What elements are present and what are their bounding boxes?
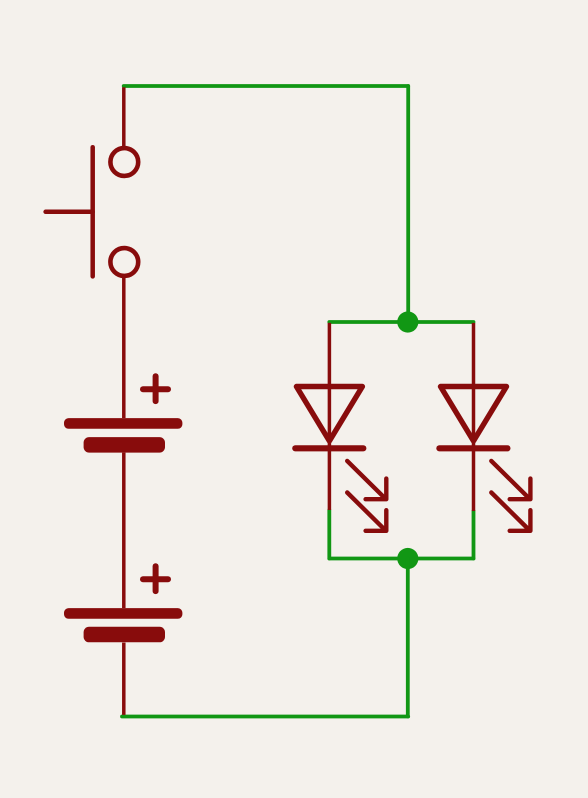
- cathode bar D2: [439, 445, 507, 451]
- junction node top: [397, 311, 418, 332]
- pin top of switch: [122, 87, 126, 148]
- triangle D1: [296, 387, 362, 442]
- switch contact circle top: [110, 148, 138, 176]
- pin bottom of switch: [122, 276, 126, 418]
- battery BT1: [64, 376, 182, 452]
- wire right vertical upper: [406, 86, 410, 322]
- wire top rail: [124, 84, 409, 88]
- pin cathode D1: [328, 439, 332, 510]
- wire right vertical lower: [406, 559, 410, 717]
- wire LED top rail: [329, 320, 473, 324]
- pin anode D1: [328, 323, 332, 439]
- plus sign BT1: [143, 376, 168, 401]
- pin cathode D2: [472, 439, 476, 511]
- battery BT2 negative plate: [84, 627, 165, 643]
- switch actuator bar: [90, 147, 95, 276]
- wire right LED branch lower: [472, 511, 476, 559]
- junction node bottom: [397, 548, 418, 569]
- light arrow D1 b: [347, 493, 386, 531]
- battery BT1 positive plate: [64, 418, 182, 429]
- light arrow D1 a: [347, 461, 386, 499]
- pin between batteries: [122, 453, 126, 608]
- pin anode D2: [472, 323, 476, 439]
- wire left LED branch lower: [327, 510, 331, 559]
- light arrow D2 a: [491, 461, 530, 499]
- switch SW1 pushbutton: [46, 87, 139, 418]
- switch actuator stub: [46, 210, 93, 215]
- wire bottom rail: [122, 715, 408, 719]
- plus sign BT2: [143, 566, 168, 591]
- battery BT1 negative plate: [84, 437, 165, 453]
- cathode bar D1: [295, 445, 363, 451]
- LED D1: [295, 323, 386, 531]
- wire LED bottom rail: [329, 557, 473, 561]
- LED D2: [439, 323, 530, 531]
- light arrow D2 b: [491, 493, 530, 531]
- battery BT2 positive plate: [64, 608, 182, 619]
- triangle D2: [441, 387, 507, 442]
- pin battery BT2 to bottom rail: [122, 643, 126, 715]
- battery BT2: [64, 566, 182, 642]
- switch contact circle bottom: [110, 248, 138, 276]
